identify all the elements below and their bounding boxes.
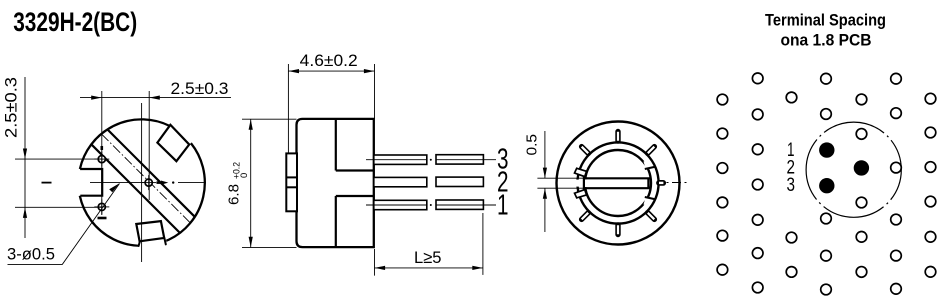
back view: screwdriver slot <box>573 180 584 187</box>
front view: slot diagonal centerline <box>101 134 190 223</box>
pin 3 centerline <box>366 159 496 161</box>
back view: rotor spokes <box>582 132 655 235</box>
dimension 4.6±0.2: extension line left (x=288.4) <box>287 64 289 153</box>
PCB terminal 3 (filled) <box>819 178 834 193</box>
dimension 0.5: dim line lower <box>544 188 546 232</box>
centerline dash above terminal T1 <box>101 146 104 150</box>
leader arrowhead <box>109 183 119 192</box>
pin 3: segment A <box>374 155 427 164</box>
side view: body outline <box>297 119 374 247</box>
svg-text:2.5±0.3: 2.5±0.3 <box>171 79 229 98</box>
dimension 6.8 +0.2/0: dim line <box>250 119 252 247</box>
dimension L≥5: extension line left <box>374 249 376 276</box>
svg-text:4.6±0.2: 4.6±0.2 <box>300 51 358 70</box>
back view: rotor ring outer circle <box>577 142 658 223</box>
back view: lower-right ring notch <box>644 197 657 207</box>
front view: wiper mark dash+arrow+dot right of center terminal <box>157 181 161 184</box>
leader line for 3-ø0.5 <box>8 184 120 265</box>
svg-text:2.5±0.3: 2.5±0.3 <box>2 77 21 138</box>
dimension 2.5±0.3 horizontal: dim line <box>80 97 231 99</box>
arrow left <box>375 266 386 270</box>
svg-text:6.8: 6.8 <box>226 184 243 205</box>
svg-text:0: 0 <box>239 173 250 178</box>
svg-text:1: 1 <box>497 190 509 222</box>
dimension 6.8 +0.2/0: extension line top <box>242 118 297 120</box>
dimension 0.5: arrow down <box>543 168 547 179</box>
terminal hole T3 (front view) <box>98 203 105 210</box>
side view: flange inner vertical line (upper) <box>335 119 337 171</box>
front view: left keyway notch <box>80 169 82 196</box>
dimension 4.6±0.2: dim line <box>288 70 374 72</box>
back view: outer flange circle <box>557 122 680 245</box>
svg-text:0.5: 0.5 <box>525 134 541 156</box>
side view: upper step line <box>336 169 374 171</box>
PCB grid holes <box>717 73 936 295</box>
PCB footprint outline circle (dash-dot) <box>806 122 901 217</box>
pin 1 centerline <box>366 204 496 206</box>
back view: 3 o-clock stop tab <box>659 180 663 186</box>
front view: horizontal centerline segments <box>42 182 52 184</box>
centerline dash below terminal T3 <box>98 217 107 220</box>
arrow left <box>288 69 299 73</box>
svg-text:L≥5: L≥5 <box>414 248 442 267</box>
extension line through center terminal x=149.2 <box>148 91 150 200</box>
front view: vertical centerline <box>141 103 143 262</box>
dimension arrow left-pointing at x=149.2 <box>149 96 160 100</box>
extension line through left terminals x=101.8 <box>101 91 103 215</box>
back view: rotor inner circle <box>585 150 651 216</box>
back view: horizontal centerline dash-dot right <box>667 182 691 184</box>
dimension 0.5: extension line bottom <box>537 187 583 189</box>
back view: slot exit step upper <box>575 168 587 176</box>
dimension 6.8 +0.2/0: extension line bottom <box>242 247 297 249</box>
extension line y=159 for vertical dim <box>15 158 102 160</box>
pin 2: segment A <box>374 177 427 186</box>
arrow right <box>364 69 375 73</box>
front view: bottom rotor tab <box>139 237 168 251</box>
dimension L≥5: dim line <box>375 267 483 269</box>
svg-text:Terminal Spacing: Terminal Spacing <box>765 11 886 29</box>
svg-text:3: 3 <box>787 175 796 196</box>
dimension 2.5±0.3 vertical: dim line <box>24 77 26 238</box>
dimension 0.5: dim line upper <box>544 131 546 178</box>
arrow up <box>249 119 253 130</box>
pin 1: segment A <box>374 200 427 209</box>
terminal hole T2 center (front view) <box>145 179 152 186</box>
arrow right <box>472 266 483 270</box>
svg-text:3329H-2(BC): 3329H-2(BC) <box>13 7 137 37</box>
terminal hole T1 (front view) <box>98 156 105 163</box>
front view: screwdriver slot edge lower <box>91 144 180 233</box>
side view: lower step line <box>336 195 374 197</box>
PCB terminal 1 (filled) <box>819 142 834 157</box>
back view: upper-right ring notch <box>644 159 657 169</box>
dimension L≥5: extension line right <box>482 213 484 275</box>
arrow down <box>249 237 253 248</box>
dimension 0.5: extension line top <box>537 177 583 179</box>
svg-text:3-ø0.5: 3-ø0.5 <box>7 245 55 264</box>
dimension 2.5±0.3 vertical: arrow up <box>23 207 27 218</box>
front view: body circle outline <box>80 119 205 245</box>
pin 2: segment B <box>436 177 483 186</box>
pin 1: segment B <box>436 200 483 209</box>
back view: slot exit step lower <box>575 190 587 198</box>
dimension 4.6±0.2: extension line right (x=374.5) <box>374 64 376 119</box>
dimension 0.5: arrow up <box>543 188 547 199</box>
front view: top-right rotor tab <box>157 125 189 161</box>
front view: screwdriver slot edge upper <box>108 130 195 217</box>
dimension text 6.8 with tolerance (vertical) <box>226 162 251 205</box>
extension line y=207 for vertical dim <box>15 206 102 208</box>
side view: flange inner vertical line (lower) <box>335 196 337 247</box>
side view: left standoff block <box>286 153 297 211</box>
PCB terminal 2 (filled) <box>854 160 869 175</box>
pin 3: segment B <box>436 155 483 164</box>
dimension arrow right-pointing at x=101.8 <box>91 96 102 100</box>
dimension 2.5±0.3 vertical: arrow down <box>23 149 27 160</box>
svg-text:ona 1.8 PCB: ona 1.8 PCB <box>781 31 872 49</box>
